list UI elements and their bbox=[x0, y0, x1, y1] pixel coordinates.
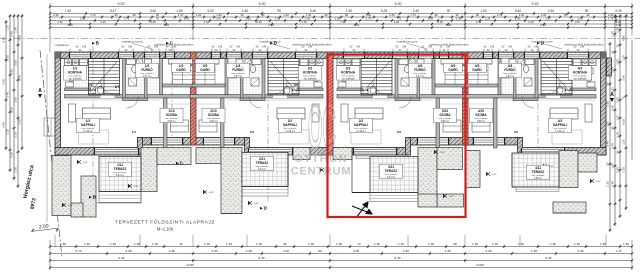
bottom dimension line row 1 bbox=[50, 246, 632, 248]
internal wall: gard bottom bbox=[163, 84, 196, 87]
svg-text:1.30: 1.30 bbox=[226, 242, 232, 246]
svg-text:1/7: 1/7 bbox=[115, 85, 120, 89]
svg-text:148: 148 bbox=[534, 46, 539, 49]
hall tiled floor bbox=[240, 95, 299, 99]
hall and wc fixtures bbox=[368, 88, 376, 94]
svg-text:►C: ►C bbox=[175, 161, 184, 166]
svg-text:1.00: 1.00 bbox=[275, 16, 281, 20]
svg-text:1.30: 1.30 bbox=[428, 16, 434, 20]
svg-text:1.25: 1.25 bbox=[245, 16, 251, 20]
internal wall: stairs | bath vertical bbox=[535, 59, 538, 99]
svg-text:-0.02: -0.02 bbox=[449, 196, 455, 198]
svg-text:1.75: 1.75 bbox=[366, 16, 372, 20]
staircase bbox=[268, 59, 299, 96]
nappali rug dashed bbox=[279, 130, 309, 144]
label furdo 1/8 bbox=[136, 63, 159, 77]
svg-text:148: 148 bbox=[446, 46, 451, 49]
svg-text:2.26: 2.26 bbox=[485, 249, 491, 253]
svg-text:148: 148 bbox=[428, 46, 433, 49]
party wall unit2|3 (fire wall, red) bbox=[328, 52, 334, 155]
svg-text:30: 30 bbox=[132, 13, 136, 17]
exterior east wall bbox=[601, 52, 607, 155]
svg-text:1.45: 1.45 bbox=[600, 242, 606, 246]
svg-text:1/6: 1/6 bbox=[88, 83, 93, 87]
corner blocks bbox=[55, 52, 61, 59]
svg-text:1.25: 1.25 bbox=[485, 16, 491, 20]
svg-text:NAPPALI: NAPPALI bbox=[81, 123, 95, 127]
internal wall: hall/nappali horizontal bbox=[337, 95, 470, 99]
hall tiled floor bbox=[513, 95, 572, 99]
svg-text:1.46: 1.46 bbox=[472, 242, 478, 246]
bedroom bed bbox=[171, 120, 189, 132]
svg-text:148: 148 bbox=[172, 46, 177, 49]
svg-text:GARD: GARD bbox=[176, 68, 186, 72]
svg-text:csatlakozó pont: csatlakozó pont bbox=[397, 40, 418, 44]
internal wall: gard bottom bbox=[465, 84, 498, 87]
kitchen counter and appliances bbox=[589, 59, 596, 66]
svg-text:2.20: 2.20 bbox=[6, 129, 10, 135]
svg-text:3.40: 3.40 bbox=[611, 181, 615, 187]
svg-text:KONYHA: KONYHA bbox=[573, 71, 588, 75]
top dimension line row 5 bbox=[50, 23, 632, 25]
right vertical dimension lines bbox=[609, 42, 611, 232]
svg-text:148: 148 bbox=[262, 46, 267, 49]
svg-text:4.10: 4.10 bbox=[476, 20, 482, 24]
svg-text:90: 90 bbox=[447, 9, 451, 13]
svg-text:17.38 m²: 17.38 m² bbox=[285, 130, 295, 133]
svg-text:TERVEZETT FÖLDSZINTI ALAPRAJZ: TERVEZETT FÖLDSZINTI ALAPRAJZ bbox=[115, 219, 215, 226]
svg-text:148: 148 bbox=[154, 46, 159, 49]
svg-text:4.30: 4.30 bbox=[268, 23, 274, 27]
svg-text:3.20: 3.20 bbox=[6, 55, 10, 61]
svg-text:3.60: 3.60 bbox=[10, 69, 14, 75]
label terasz 2/11 bbox=[251, 156, 274, 170]
svg-text:10: 10 bbox=[179, 242, 183, 246]
kitchen tiled floor bbox=[65, 59, 89, 89]
internal wall: stairs | bath vertical bbox=[123, 59, 126, 99]
svg-text:1.35: 1.35 bbox=[336, 242, 342, 246]
internal wall: kitchen bottom bbox=[65, 88, 91, 91]
svg-text:1.48: 1.48 bbox=[531, 249, 537, 253]
svg-text:6.40: 6.40 bbox=[394, 256, 400, 260]
svg-text:1.48: 1.48 bbox=[168, 249, 174, 253]
east wall pillar attachment bbox=[607, 58, 612, 76]
bathroom fixtures bbox=[127, 59, 136, 65]
svg-text:4.30: 4.30 bbox=[18, 119, 22, 125]
svg-text:épületen belüli légkondenzátor: épületen belüli légkondenzátor bbox=[564, 43, 603, 47]
bedroom bed bbox=[199, 120, 217, 132]
svg-text:1.05: 1.05 bbox=[215, 16, 221, 20]
bottom dimension line row 2 bbox=[50, 253, 632, 255]
label szoba 4/10 bbox=[470, 108, 493, 122]
svg-text:90: 90 bbox=[261, 13, 265, 17]
bottom dimension line row 3 bbox=[50, 260, 632, 262]
svg-text:1.50: 1.50 bbox=[480, 9, 486, 13]
svg-text:148: 148 bbox=[218, 46, 223, 49]
svg-text:2.90: 2.90 bbox=[616, 167, 620, 173]
svg-text:1.70: 1.70 bbox=[90, 13, 96, 17]
svg-text:4.10: 4.10 bbox=[354, 23, 360, 27]
internal wall: kitchen bottom bbox=[570, 88, 596, 91]
top dimension line row 2 bbox=[50, 13, 632, 15]
svg-text:2.40: 2.40 bbox=[616, 27, 620, 33]
svg-text:72: 72 bbox=[357, 242, 361, 246]
svg-text:1.40: 1.40 bbox=[14, 27, 18, 33]
living room furniture bbox=[550, 108, 578, 119]
label gard 2/9 bbox=[196, 63, 215, 72]
svg-text:1.20: 1.20 bbox=[374, 242, 380, 246]
exterior north wall bbox=[55, 52, 606, 59]
terrace 3 paving bbox=[370, 157, 418, 193]
svg-text:-0.02: -0.02 bbox=[83, 162, 89, 164]
terrace 3 retaining walls bbox=[333, 148, 352, 160]
svg-text:1.48: 1.48 bbox=[550, 242, 556, 246]
label szoba 3/10 bbox=[434, 108, 457, 122]
svg-text:4.37 m²: 4.37 m² bbox=[143, 75, 151, 78]
svg-text:1.20: 1.20 bbox=[428, 242, 434, 246]
svg-text:SZOBA: SZOBA bbox=[208, 113, 220, 117]
svg-text:GARD: GARD bbox=[448, 68, 458, 72]
svg-text:1.40: 1.40 bbox=[65, 9, 71, 13]
terrace 1 paving bbox=[99, 157, 141, 192]
svg-text:2.28: 2.28 bbox=[437, 20, 443, 24]
staircase bbox=[541, 59, 572, 96]
bedroom bed bbox=[472, 120, 490, 132]
svg-text:4.20: 4.20 bbox=[100, 20, 106, 24]
svg-text:2.40: 2.40 bbox=[616, 23, 622, 27]
hall and wc partition walls bbox=[240, 98, 265, 101]
bottom dim risers bbox=[49, 240, 51, 270]
internal wall: nappali | szoba vertical bbox=[436, 98, 440, 148]
svg-text:FÜRDŐ: FÜRDŐ bbox=[504, 67, 516, 72]
svg-text:ep. burkolat: ep. burkolat bbox=[69, 77, 82, 80]
svg-text:-0.02: -0.02 bbox=[492, 174, 498, 176]
svg-text:1.75: 1.75 bbox=[124, 16, 130, 20]
svg-text:ep. burkolat: ep. burkolat bbox=[342, 77, 355, 80]
svg-text:3.73: 3.73 bbox=[75, 249, 81, 253]
svg-text:30: 30 bbox=[564, 13, 568, 17]
svg-text:3.10: 3.10 bbox=[14, 132, 18, 138]
svg-text:3.00: 3.00 bbox=[616, 59, 620, 65]
hall tiled floor bbox=[361, 95, 420, 99]
svg-text:OC: OC bbox=[308, 95, 336, 161]
label nappali 1/2 bbox=[77, 118, 100, 132]
internal wall: nappali | szoba vertical bbox=[164, 98, 168, 148]
internal wall: bath | gard vertical bbox=[432, 59, 435, 95]
west porch steps bbox=[44, 118, 55, 136]
nappali rug dashed bbox=[351, 130, 381, 144]
hall and wc fixtures bbox=[284, 88, 292, 94]
internal wall: bath | gard vertical bbox=[160, 59, 163, 95]
living room furniture bbox=[277, 108, 305, 119]
svg-text:3.50: 3.50 bbox=[616, 97, 620, 103]
internal wall: stairs | bath vertical bbox=[262, 59, 265, 99]
top dimension line row 1 (9.20 totals) bbox=[50, 6, 632, 8]
svg-text:1.20: 1.20 bbox=[6, 25, 10, 31]
label terasz 1/11 bbox=[109, 162, 132, 176]
label gard 4/9 bbox=[468, 63, 487, 72]
svg-text:6.04 m²: 6.04 m² bbox=[387, 176, 395, 179]
svg-text:TERASZ: TERASZ bbox=[385, 169, 398, 173]
svg-text:4.20: 4.20 bbox=[394, 20, 400, 24]
svg-text:FÜRDŐ: FÜRDŐ bbox=[141, 67, 153, 72]
svg-text:1.20: 1.20 bbox=[204, 242, 210, 246]
svg-text:148: 148 bbox=[82, 46, 87, 49]
internal wall: hall/nappali horizontal bbox=[65, 95, 198, 99]
svg-text:4.37 m²: 4.37 m² bbox=[506, 75, 514, 78]
svg-text:2.40: 2.40 bbox=[53, 13, 59, 17]
label nappali 4/2 bbox=[549, 118, 572, 132]
kitchen tiled floor bbox=[337, 59, 361, 89]
label furdo 4/8 bbox=[499, 63, 522, 77]
svg-text:2.28: 2.28 bbox=[150, 20, 156, 24]
svg-text:CENTRUM: CENTRUM bbox=[291, 166, 352, 178]
hall and wc fixtures bbox=[96, 88, 104, 94]
bedroom bed bbox=[443, 120, 461, 132]
svg-text:17.38 m²: 17.38 m² bbox=[83, 130, 93, 133]
label gard 3/9 bbox=[444, 63, 463, 72]
svg-text:9.20: 9.20 bbox=[259, 2, 266, 6]
svg-text:5.20: 5.20 bbox=[207, 9, 213, 13]
svg-text:90: 90 bbox=[324, 13, 328, 17]
svg-text:1/1: 1/1 bbox=[132, 130, 137, 134]
svg-text:►B: ►B bbox=[91, 41, 100, 46]
section line D-D vertical bbox=[267, 46, 269, 203]
terrace 4 retaining walls bbox=[466, 151, 480, 188]
svg-text:9.56 m²: 9.56 m² bbox=[477, 120, 485, 123]
svg-text:3/1: 3/1 bbox=[397, 130, 402, 134]
svg-text:148: 148 bbox=[128, 46, 133, 49]
kitchen counter and appliances bbox=[65, 59, 72, 66]
hall and wc partition walls bbox=[395, 98, 420, 101]
internal wall: gard bottom bbox=[435, 84, 468, 87]
svg-text:148: 148 bbox=[308, 46, 313, 49]
north arrow compass bbox=[352, 202, 372, 218]
svg-text:2.20: 2.20 bbox=[606, 181, 610, 187]
level markers (bowties) bbox=[77, 160, 81, 164]
svg-text:4.40: 4.40 bbox=[540, 23, 546, 27]
svg-text:2.40: 2.40 bbox=[615, 9, 621, 13]
svg-text:1.20: 1.20 bbox=[545, 16, 551, 20]
svg-text:12.80: 12.80 bbox=[186, 263, 194, 267]
svg-text:TERASZ: TERASZ bbox=[114, 167, 127, 171]
svg-text:1.05: 1.05 bbox=[616, 115, 620, 121]
svg-text:2.20: 2.20 bbox=[528, 20, 534, 24]
label szoba 1/10 bbox=[160, 108, 183, 122]
svg-text:1.55: 1.55 bbox=[574, 20, 580, 24]
svg-text:KONYHA: KONYHA bbox=[341, 71, 356, 75]
exterior west wall bbox=[55, 52, 61, 155]
svg-text:148: 148 bbox=[580, 46, 585, 49]
svg-text:96: 96 bbox=[283, 242, 287, 246]
label konyha 1/3 bbox=[64, 66, 87, 80]
svg-text:17.30 m²: 17.30 m² bbox=[555, 130, 565, 133]
bathroom tiled floor bbox=[228, 59, 262, 95]
svg-text:1.40: 1.40 bbox=[246, 249, 252, 253]
svg-text:1.55: 1.55 bbox=[301, 20, 307, 24]
svg-text:9.56 m²: 9.56 m² bbox=[167, 120, 175, 123]
staircase bbox=[361, 59, 392, 96]
svg-text:1.40: 1.40 bbox=[611, 163, 615, 169]
kitchen counter and appliances bbox=[337, 59, 344, 66]
svg-text:90: 90 bbox=[616, 150, 620, 154]
nappali rug dashed bbox=[79, 130, 109, 144]
svg-text:12.80: 12.80 bbox=[476, 263, 484, 267]
svg-text:3.30: 3.30 bbox=[10, 107, 14, 113]
wardrobe shelving bbox=[169, 59, 193, 64]
internal wall: stairs | bath vertical bbox=[395, 59, 398, 99]
bathroom tiled floor bbox=[398, 59, 432, 95]
svg-text:3.00: 3.00 bbox=[14, 60, 18, 66]
svg-text:1.45: 1.45 bbox=[110, 242, 116, 246]
internal wall: nappali | szoba vertical bbox=[221, 98, 225, 148]
svg-text:90: 90 bbox=[606, 162, 610, 166]
svg-text:2.40: 2.40 bbox=[548, 9, 554, 13]
svg-text:75: 75 bbox=[156, 16, 160, 20]
svg-text:NAPPALI: NAPPALI bbox=[283, 123, 297, 127]
svg-text:-0.02: -0.02 bbox=[440, 152, 446, 154]
svg-text:A: A bbox=[38, 88, 42, 94]
svg-text:4.40: 4.40 bbox=[622, 35, 626, 41]
label nappali 2/2 bbox=[279, 118, 302, 132]
north wall windows bbox=[70, 53, 90, 58]
svg-text:3.60: 3.60 bbox=[2, 79, 6, 85]
svg-text:3.40: 3.40 bbox=[577, 249, 583, 253]
svg-text:1.36: 1.36 bbox=[134, 242, 140, 246]
svg-text:3.30: 3.30 bbox=[622, 167, 626, 173]
svg-text:1.20: 1.20 bbox=[196, 13, 202, 17]
nappali rug dashed bbox=[552, 130, 582, 144]
internal wall: hall/nappali horizontal bbox=[190, 95, 323, 99]
svg-text:SZOBA: SZOBA bbox=[475, 113, 487, 117]
internal wall: bath | gard vertical bbox=[225, 59, 228, 95]
svg-text:2.60: 2.60 bbox=[211, 249, 217, 253]
bathroom tiled floor bbox=[126, 59, 160, 95]
svg-text:99: 99 bbox=[318, 249, 322, 253]
svg-text:GARD: GARD bbox=[472, 68, 482, 72]
left vertical dimension lines bbox=[5, 20, 7, 150]
svg-text:1.70: 1.70 bbox=[178, 13, 184, 17]
label konyha 3/3 bbox=[337, 66, 360, 80]
svg-text:-0.02: -0.02 bbox=[209, 192, 215, 194]
svg-text:9.56 m²: 9.56 m² bbox=[209, 120, 217, 123]
party wall unit1|2 (fire wall, red) bbox=[191, 52, 197, 145]
label konyha 4/3 bbox=[569, 66, 592, 80]
svg-text:6.40: 6.40 bbox=[118, 256, 124, 260]
svg-text:148: 148 bbox=[236, 46, 241, 49]
svg-text:6.40: 6.40 bbox=[258, 256, 264, 260]
label nappali 3/2 bbox=[350, 118, 373, 132]
svg-text:3.02: 3.02 bbox=[283, 249, 289, 253]
svg-text:90: 90 bbox=[114, 13, 118, 17]
svg-text:1.30: 1.30 bbox=[398, 242, 404, 246]
svg-text:2.90: 2.90 bbox=[14, 167, 18, 173]
svg-text:1.20: 1.20 bbox=[256, 242, 262, 246]
svg-text:ep. burkolat: ep. burkolat bbox=[574, 77, 587, 80]
section line D2-D2 vertical bbox=[537, 46, 539, 160]
svg-text:1.70: 1.70 bbox=[410, 13, 416, 17]
entry steps below terrace doors bbox=[99, 155, 138, 158]
internal wall: gard bottom bbox=[192, 84, 225, 87]
label terasz 3/11 bbox=[380, 164, 403, 178]
svg-text:9.20: 9.20 bbox=[532, 2, 539, 6]
svg-text:1.20: 1.20 bbox=[308, 242, 314, 246]
internal wall: bath | gard vertical bbox=[498, 59, 501, 95]
south wall segments with terrace doors bbox=[55, 148, 140, 156]
svg-text:90: 90 bbox=[611, 50, 615, 54]
svg-text:1.75: 1.75 bbox=[608, 16, 614, 20]
svg-text:1.20: 1.20 bbox=[283, 13, 289, 17]
section line dash-dot across top bbox=[0, 38, 640, 40]
party wall unit3|4 (fire wall, red) bbox=[463, 52, 469, 145]
svg-text:6.24 m²: 6.24 m² bbox=[258, 168, 266, 171]
svg-text:3.40: 3.40 bbox=[18, 75, 22, 81]
svg-text:2/6: 2/6 bbox=[294, 83, 299, 87]
svg-text:-0.02: -0.02 bbox=[254, 203, 260, 205]
svg-text:90: 90 bbox=[586, 13, 590, 17]
terrace 1 retaining walls (stippled) bbox=[52, 156, 71, 216]
svg-text:KONYHA: KONYHA bbox=[303, 71, 318, 75]
svg-text:3.40: 3.40 bbox=[611, 143, 615, 149]
hall and wc partition walls bbox=[123, 98, 148, 101]
svg-text:4.10: 4.10 bbox=[164, 23, 170, 27]
svg-text:75: 75 bbox=[622, 96, 626, 100]
kitchen tiled floor bbox=[572, 59, 596, 89]
svg-text:1.05: 1.05 bbox=[80, 16, 86, 20]
svg-text:4.37 m²: 4.37 m² bbox=[416, 75, 424, 78]
svg-text:KONYHA: KONYHA bbox=[68, 71, 83, 75]
svg-text:4.40: 4.40 bbox=[2, 122, 6, 128]
svg-text:1.40: 1.40 bbox=[518, 242, 524, 246]
internal wall: nappali | szoba vertical bbox=[494, 98, 498, 148]
svg-text:9.20: 9.20 bbox=[118, 2, 125, 6]
svg-text:1.20: 1.20 bbox=[340, 20, 346, 24]
svg-text:FÜRDŐ: FÜRDŐ bbox=[414, 67, 426, 72]
svg-text:1.40: 1.40 bbox=[574, 242, 580, 246]
svg-text:2.40: 2.40 bbox=[389, 13, 395, 17]
svg-text:4.20: 4.20 bbox=[18, 35, 22, 41]
internal wall: kitchen bottom bbox=[297, 88, 323, 91]
kitchen tiled floor bbox=[299, 59, 323, 89]
svg-text:1.20: 1.20 bbox=[622, 139, 626, 145]
label szoba 2/10 bbox=[202, 108, 225, 122]
svg-text:TERASZ: TERASZ bbox=[532, 170, 545, 174]
svg-text:A: A bbox=[610, 92, 614, 98]
svg-text:4/1: 4/1 bbox=[514, 130, 519, 134]
wardrobe shelving bbox=[468, 59, 492, 64]
svg-text:4.30: 4.30 bbox=[622, 119, 626, 125]
svg-text:4.10: 4.10 bbox=[10, 152, 14, 158]
svg-text:1.20: 1.20 bbox=[492, 242, 498, 246]
svg-text:épületen belüli légkondenzátor: épületen belüli légkondenzátor bbox=[292, 43, 331, 47]
svg-text:1.20: 1.20 bbox=[152, 242, 158, 246]
svg-text:►D: ►D bbox=[269, 41, 278, 46]
svg-text:1.40: 1.40 bbox=[611, 31, 615, 37]
svg-text:4.10: 4.10 bbox=[204, 20, 210, 24]
living room furniture bbox=[83, 108, 111, 119]
hall and wc partition walls bbox=[513, 98, 538, 101]
svg-text:1.48: 1.48 bbox=[60, 242, 66, 246]
svg-text:1.30: 1.30 bbox=[184, 16, 190, 20]
svg-text:75: 75 bbox=[616, 44, 620, 48]
top dimension line row 3 bbox=[50, 16, 632, 18]
svg-text:csatlakozó pont: csatlakozó pont bbox=[122, 40, 143, 44]
svg-text:1.00: 1.00 bbox=[515, 16, 521, 20]
svg-text:TERASZ: TERASZ bbox=[256, 161, 269, 165]
svg-text:2.28: 2.28 bbox=[125, 249, 131, 253]
label furdo 2/8 bbox=[227, 63, 250, 77]
svg-text:148: 148 bbox=[490, 46, 495, 49]
